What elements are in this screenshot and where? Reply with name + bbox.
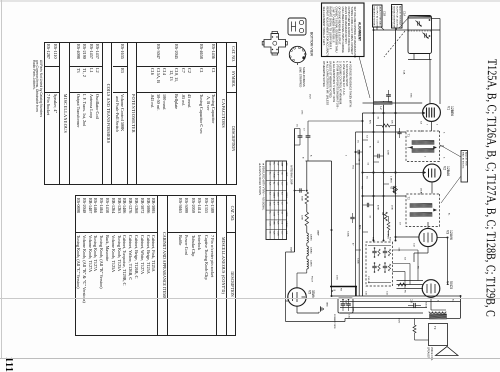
callout trimmer note <box>461 151 468 183</box>
svg-text:ADJUST FOR: ADJUST FOR <box>465 152 468 166</box>
svg-text:12BA6: 12BA6 <box>273 172 276 179</box>
callout box osc trimmer <box>392 5 403 29</box>
svg-text:R2: R2 <box>390 186 392 190</box>
svg-text:6: 6 <box>443 132 445 134</box>
svg-text:C6: C6 <box>357 140 359 144</box>
svg-text:C10-13: C10-13 <box>367 276 369 284</box>
wire V3 cathode <box>427 247 429 253</box>
svg-text:1000: 1000 <box>336 275 338 281</box>
wire V1 plate to T1 <box>431 122 433 131</box>
svg-text:CONNECT SIGNAL GENERATOR THRU: CONNECT SIGNAL GENERATOR THRU <box>335 7 338 53</box>
svg-text:VOL: VOL <box>352 165 354 170</box>
wire B- bus <box>373 27 375 241</box>
wire loop bottom <box>286 251 295 253</box>
svg-text:USE LOWEST SIGNAL INPUT CAPABL: USE LOWEST SIGNAL INPUT CAPABLE <box>341 7 344 54</box>
capacitor C5 <box>357 150 359 154</box>
capacitor C14 <box>413 303 415 308</box>
pointer lines <box>440 145 461 157</box>
wire T1 top <box>356 131 407 133</box>
tube socket X1 (speaker plug, bottom view) <box>288 18 306 35</box>
capacitor C13 stub <box>350 216 354 218</box>
wire bottom <box>345 318 461 320</box>
svg-text:B+: B+ <box>452 299 454 302</box>
resistor R3a <box>387 222 390 230</box>
svg-text:C1B: C1B <box>383 11 387 16</box>
capacitor C6 <box>298 135 303 137</box>
callout box ant trimmer <box>373 5 383 27</box>
wire output bus 2 <box>340 301 461 303</box>
svg-text:C11: C11 <box>386 291 388 296</box>
wire V4 plate <box>430 297 432 310</box>
svg-text:22K: 22K <box>391 120 393 124</box>
wire T2 left <box>363 195 407 197</box>
node B <box>331 290 333 292</box>
svg-text:1 MEG: 1 MEG <box>390 176 392 183</box>
svg-text:ALIGN FOR MAXIMUM OUTPUT.: ALIGN FOR MAXIMUM OUTPUT. <box>344 7 347 45</box>
interlock plug <box>338 298 353 313</box>
parts table 2 <box>75 195 236 336</box>
wire V3 plate right <box>437 237 447 239</box>
svg-text:COUPLED TO LOOP: COUPLED TO LOOP <box>390 6 392 27</box>
trimmer C1A <box>424 33 426 37</box>
svg-text:2: 2 <box>345 155 347 157</box>
svg-text:TUNING COND. FULLY OPEN. CONNE: TUNING COND. FULLY OPEN. CONNECT <box>350 7 353 56</box>
resistor R6 <box>398 283 406 286</box>
svg-text:L2: L2 <box>379 107 383 110</box>
svg-text:AVC: AVC <box>369 120 372 125</box>
title <box>483 59 500 316</box>
capacitor C4 stub <box>397 131 401 133</box>
svg-text:560K: 560K <box>301 196 303 202</box>
wire gang bottom <box>408 59 432 61</box>
svg-text:150V: 150V <box>398 318 400 324</box>
wire chain to V5 <box>297 272 307 274</box>
svg-text:5: 5 <box>443 157 445 159</box>
svg-text:R12: R12 <box>389 237 391 242</box>
svg-text:C5: C5 <box>366 176 368 180</box>
svg-text:1620: 1620 <box>309 94 311 99</box>
svg-text:12BE6: 12BE6 <box>285 192 287 199</box>
IF transformer T2 (dashed) <box>406 194 440 227</box>
resistor R7 <box>413 325 416 333</box>
resistor R10 <box>305 212 308 226</box>
svg-text:POWER CORD: POWER CORD <box>333 314 335 329</box>
svg-text:PILOT: PILOT <box>311 276 313 283</box>
capacitor C3 <box>377 154 379 158</box>
svg-text:★ MEASURED WITH VTVM — NO SIGN: ★ MEASURED WITH VTVM — NO SIGNAL <box>262 163 265 211</box>
svg-text:.05: .05 <box>377 116 379 120</box>
resistor <box>388 249 390 256</box>
svg-text:ADJUST FOR MAX.: ADJUST FOR MAX. <box>399 6 402 26</box>
oscillator coil L2 <box>374 102 392 105</box>
resistor <box>378 264 380 271</box>
svg-text:T1: T1 <box>420 130 422 133</box>
capacitor <box>383 265 387 267</box>
heavy chassis vertical <box>355 287 357 296</box>
svg-text:OSC: OSC <box>410 93 412 98</box>
tube socket X3 (7-pin miniature, bottom view) <box>289 46 305 62</box>
svg-text:1: 1 <box>424 156 426 158</box>
T2 tuning arrows <box>434 209 437 211</box>
svg-text:★ ALIGN IN ORDER SHOWN: ★ ALIGN IN ORDER SHOWN <box>258 163 261 195</box>
wire callout leads <box>376 27 378 30</box>
svg-text:★ VOLTAGE READINGS TAKEN WITH:: ★ VOLTAGE READINGS TAKEN WITH: <box>349 61 353 108</box>
IF transformer T1 (dashed) <box>406 131 440 162</box>
svg-text:LAMP: LAMP <box>317 230 320 236</box>
svg-text:R8: R8 <box>340 288 342 292</box>
capacitor C7 <box>306 135 311 137</box>
svg-text:12AV6: 12AV6 <box>449 230 453 240</box>
svg-text:C12: C12 <box>413 243 415 248</box>
filament dropping chain <box>307 233 309 243</box>
svg-text:SHIELD DRESS: SHIELD DRESS <box>302 67 306 87</box>
svg-text:GRID: GRID <box>285 212 287 218</box>
scan artifacts (unrotated) <box>0 0 500 2</box>
svg-text:C7: C7 <box>303 128 305 132</box>
svg-text:T1: T1 <box>407 134 411 138</box>
wire output bus 3 <box>340 307 427 309</box>
wire T3 leads <box>431 309 446 311</box>
tube V5 35W4 rectifier <box>288 288 306 306</box>
svg-text:12BE6: 12BE6 <box>450 106 454 116</box>
svg-text:REPEAT ADJUSTMENTS FOR ACCURAC: REPEAT ADJUSTMENTS FOR ACCURACY. <box>325 7 328 57</box>
wire V4 grid <box>397 280 424 282</box>
svg-text:B+: B+ <box>448 213 450 216</box>
wire B+ riser <box>460 296 462 318</box>
wire bus <box>362 113 364 296</box>
resistor R2 <box>393 186 396 194</box>
tube V1 12BE6 converter <box>423 104 441 122</box>
wire V1 grid <box>363 112 423 114</box>
T1 tuning arrows <box>410 146 413 148</box>
speaker frame <box>429 324 448 346</box>
svg-text:SET VOLUME CONTROL AT MAXIMUM: SET VOLUME CONTROL AT MAXIMUM AND <box>353 7 356 58</box>
wire network out 1 <box>393 249 419 251</box>
capacitor C16B <box>346 303 351 305</box>
capacitor <box>383 250 387 252</box>
svg-text:50C5: 50C5 <box>425 302 427 308</box>
wire output bus 1 <box>332 295 461 297</box>
wire output bus 4 <box>340 312 423 314</box>
svg-text:.02: .02 <box>369 215 371 219</box>
svg-text:B: B <box>333 290 336 292</box>
dashed link to chart <box>384 31 405 57</box>
svg-text:C15A: C15A <box>347 231 350 237</box>
alignment instructions box <box>322 3 365 57</box>
svg-text:C16: C16 <box>348 314 350 319</box>
svg-text:220K: 220K <box>387 150 389 156</box>
svg-text:R4: R4 <box>381 212 383 216</box>
wire V2 plate <box>431 182 433 194</box>
svg-text:ALIGNMENT: ALIGNMENT <box>358 22 362 41</box>
svg-text:C10: C10 <box>365 291 367 296</box>
capacitor C16A <box>341 303 346 305</box>
svg-text:C1A: C1A <box>403 11 407 16</box>
svg-text:2: 2 <box>436 124 438 126</box>
svg-text:50C5: 50C5 <box>449 281 453 289</box>
svg-text:T3: T3 <box>433 326 437 330</box>
svg-text:12BA6: 12BA6 <box>310 247 313 254</box>
tube V4 50C5 output <box>422 280 440 298</box>
svg-text:GND: GND <box>326 302 328 307</box>
gang section divider <box>408 30 432 32</box>
wire network out 2 <box>393 263 411 265</box>
tube V2 12BA6 IF amplifier <box>423 164 441 182</box>
svg-text:12BE6: 12BE6 <box>310 234 312 241</box>
wire V2 grid <box>363 172 424 174</box>
alignment chart <box>266 161 287 240</box>
parts table 1 <box>44 42 237 185</box>
ground chassis <box>320 306 322 311</box>
svg-text:35W4: 35W4 <box>290 247 292 253</box>
wire osc section to V1 <box>429 60 431 104</box>
svg-text:R6: R6 <box>404 290 406 294</box>
svg-text:C6: C6 <box>296 124 298 128</box>
svg-text:47: 47 <box>352 243 354 246</box>
resistor <box>388 264 390 271</box>
svg-text:ANTENNA LOOP: ANTENNA LOOP <box>290 165 293 185</box>
capacitor <box>372 250 376 252</box>
svg-text:OF GIVING READABLE OUTPUT.: OF GIVING READABLE OUTPUT. <box>338 7 341 46</box>
svg-text:C15B: C15B <box>357 258 359 264</box>
page number <box>3 357 14 372</box>
svg-text:C3: C3 <box>366 135 368 139</box>
pointer from alignment box <box>359 57 370 99</box>
coupling network (dashed) <box>366 242 393 286</box>
svg-text:B-: B- <box>369 146 371 148</box>
svg-text:7: 7 <box>426 124 428 126</box>
speaker cone <box>436 347 459 356</box>
credit note <box>31 60 42 170</box>
svg-text:C9: C9 <box>404 257 406 261</box>
heavy chassis segment <box>330 286 357 288</box>
svg-text:SEE ALIGNMENT TABLE AT LEFT.: SEE ALIGNMENT TABLE AT LEFT. <box>322 7 325 47</box>
svg-text:12BE6: 12BE6 <box>273 192 275 199</box>
resistor <box>378 249 380 256</box>
svg-text:OUTPUT METER ACROSS VOICE COIL: OUTPUT METER ACROSS VOICE COIL. <box>347 7 350 54</box>
wire to bus <box>308 120 363 122</box>
svg-text:C1A: C1A <box>403 70 406 75</box>
svg-text:12BA6: 12BA6 <box>446 166 450 176</box>
capacitor C8 <box>366 203 368 207</box>
wire T1 right <box>440 145 445 147</box>
diode load marker <box>394 187 398 193</box>
wire V3 grid <box>396 236 419 238</box>
wire V5 bottom loop <box>286 300 289 302</box>
svg-text:ADJUST FOR MAX.: ADJUST FOR MAX. <box>379 7 382 27</box>
svg-text:C14: C14 <box>410 299 412 304</box>
wire V3 top <box>427 222 429 228</box>
svg-text:.01: .01 <box>377 140 379 144</box>
wire bus <box>395 28 397 241</box>
wire bus <box>355 132 357 296</box>
svg-text:AVC: AVC <box>359 225 362 230</box>
svg-text:.1 MF. TO MIXER GRID FOR I.F.: .1 MF. TO MIXER GRID FOR I.F. <box>332 7 335 44</box>
svg-text:OSC: OSC <box>301 110 303 115</box>
tube socket X2 (7-pin wafer, bottom view) <box>264 34 286 54</box>
capacitor <box>372 265 376 267</box>
tuning capacitor gang C1 <box>408 16 432 54</box>
wire V5 plate <box>296 306 298 313</box>
trimmer C1B <box>417 21 419 25</box>
svg-text:OSC: OSC <box>268 202 270 207</box>
antenna loop L1 <box>294 129 296 253</box>
svg-text:.02: .02 <box>367 162 369 166</box>
svg-text:A: A <box>310 155 313 157</box>
capacitor C2 <box>386 94 391 96</box>
svg-text:C4: C4 <box>420 121 422 125</box>
resistor R9 <box>305 192 308 204</box>
wire loop top edge <box>306 160 332 162</box>
wire loop lead <box>331 161 333 296</box>
wire gang top feed <box>374 29 441 31</box>
jumper with capacitor <box>295 190 306 192</box>
wire network out 3 <box>393 271 406 273</box>
wire stubs texture <box>363 139 369 141</box>
svg-text:12AV6: 12AV6 <box>310 260 313 267</box>
svg-text:T2: T2 <box>407 197 411 201</box>
svg-text:220K: 220K <box>301 215 303 221</box>
svg-text:12BA6: 12BA6 <box>285 221 288 228</box>
resistor R4 <box>384 212 387 221</box>
svg-text:C9: C9 <box>399 222 401 226</box>
resistor R1 <box>382 124 390 127</box>
svg-text:BOTTOM VIEW: BOTTOM VIEW <box>310 32 314 57</box>
wire bus <box>358 152 360 296</box>
tube V3 12AV6 det-AF <box>419 228 437 246</box>
svg-text:.005: .005 <box>398 247 400 252</box>
svg-text:VOICE COIL: VOICE COIL <box>430 347 433 361</box>
wire AVC bus <box>383 101 385 241</box>
svg-text:470K: 470K <box>377 205 379 211</box>
svg-text:RADIATE SIGNAL TO LOOP FOR R.F: RADIATE SIGNAL TO LOOP FOR R.F. <box>328 7 331 51</box>
svg-text:470K: 470K <box>391 205 393 210</box>
output transformer T3 <box>429 312 446 314</box>
svg-text:B: B <box>302 157 304 159</box>
component ladder <box>306 161 308 192</box>
